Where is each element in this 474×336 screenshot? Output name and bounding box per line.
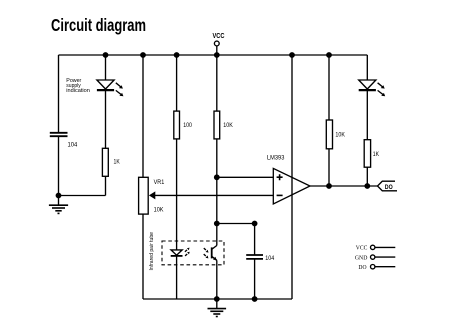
node: C2 left junction — [214, 221, 220, 227]
dashed box: infrared pair tube — [162, 241, 224, 265]
wire: R2 branch from rail down to IR LED — [176, 55, 178, 250]
capacitor C2 104 — [246, 255, 274, 262]
svg-text:100: 100 — [183, 122, 192, 129]
ground (left) — [49, 196, 68, 214]
node: top rail / pull-up branch — [326, 52, 332, 58]
node: plus input junction — [214, 174, 220, 180]
wire: left branch from rail to C1 — [58, 55, 60, 133]
resistor R4 10K pull-up — [326, 120, 345, 149]
svg-text:10K: 10K — [335, 131, 345, 138]
wire: pull-up branch — [328, 55, 330, 186]
pin DO — [358, 264, 395, 271]
svg-text:Circuit diagram: Circuit diagram — [51, 15, 146, 35]
wire: comparator power rail (vertical through LM393) — [291, 55, 293, 299]
svg-text:VCC: VCC — [356, 245, 368, 252]
wire: C2 top lead — [254, 224, 256, 256]
node: top rail / VCC 10K branch — [214, 52, 220, 58]
svg-text:VR1: VR1 — [154, 179, 165, 186]
wire: plus input — [217, 176, 273, 178]
wire: ground node to R1 bottom — [59, 195, 106, 197]
IR emitter LED — [171, 248, 190, 256]
svg-text:10K: 10K — [154, 207, 164, 214]
label: Power supply indication — [66, 78, 90, 94]
svg-text:indication: indication — [66, 88, 90, 94]
potentiometer VR1 10K — [139, 177, 165, 214]
svg-text:1K: 1K — [373, 151, 380, 158]
node: top rail / VR1 branch — [140, 52, 146, 58]
svg-text:DO: DO — [385, 184, 393, 191]
resistor R1 1K — [102, 148, 120, 176]
svg-text:10K: 10K — [223, 122, 233, 129]
capacitor C1 104 — [50, 133, 78, 149]
LED D2 output indication — [359, 80, 386, 96]
wire: comparator output line — [310, 185, 378, 187]
node: C2 bottom on ground rail — [252, 296, 258, 302]
node: C2 top — [252, 221, 258, 227]
node: output / pull-up junction — [326, 183, 332, 189]
svg-text:VCC: VCC — [213, 31, 225, 40]
wire: LED1 to R1 — [105, 90, 107, 195]
resistor R3 10K — [214, 111, 233, 139]
svg-text:DO: DO — [358, 264, 366, 271]
wire: junction to C2 — [217, 223, 255, 225]
resistor R5 1K — [364, 140, 379, 168]
node: left ground junction — [56, 193, 62, 199]
LED D1 power supply indication — [97, 80, 124, 96]
wire: VR1 wiper to comparator minus input — [149, 191, 273, 199]
wire: top VCC rail — [59, 54, 368, 56]
wire: C1 bottom to left ground node — [58, 136, 60, 195]
op-amp U1 LM393 — [267, 155, 310, 204]
pin VCC — [356, 245, 396, 252]
svg-text:Infrared pair tube: Infrared pair tube — [149, 232, 155, 271]
node: top rail / comparator power — [289, 52, 295, 58]
svg-text:104: 104 — [265, 255, 274, 262]
node: ground junction on bottom rail — [214, 296, 220, 302]
wire: LED1 branch from rail — [105, 55, 107, 80]
node: top rail / LED1 branch — [103, 52, 109, 58]
wire: C2 bottom lead — [254, 259, 256, 299]
resistor R2 100 — [174, 111, 192, 139]
svg-text:LM393: LM393 — [267, 155, 285, 162]
wire: IR LED cathode to bottom rail — [176, 256, 178, 299]
wire: 10K branch down to phototransistor collector — [216, 55, 218, 246]
VCC terminal — [213, 31, 225, 55]
node: top rail / R2 branch — [174, 52, 180, 58]
DO output flag — [378, 181, 398, 191]
svg-text:1K: 1K — [114, 158, 121, 165]
svg-text:GND: GND — [355, 254, 368, 261]
phototransistor Q1 — [204, 246, 217, 261]
wire: LED2 to R5 to output line — [366, 90, 368, 186]
node: output / LED2 junction — [364, 183, 370, 189]
svg-text:104: 104 — [68, 141, 78, 148]
wire: right branch from rail to LED2 — [366, 55, 368, 80]
wire: phototransistor emitter to ground rail — [216, 260, 218, 299]
ground (bottom) — [208, 299, 227, 317]
wire: VR1 branch from rail to bottom rail — [142, 55, 144, 299]
pin GND — [355, 254, 395, 261]
wire: bottom ground rail — [143, 298, 292, 300]
